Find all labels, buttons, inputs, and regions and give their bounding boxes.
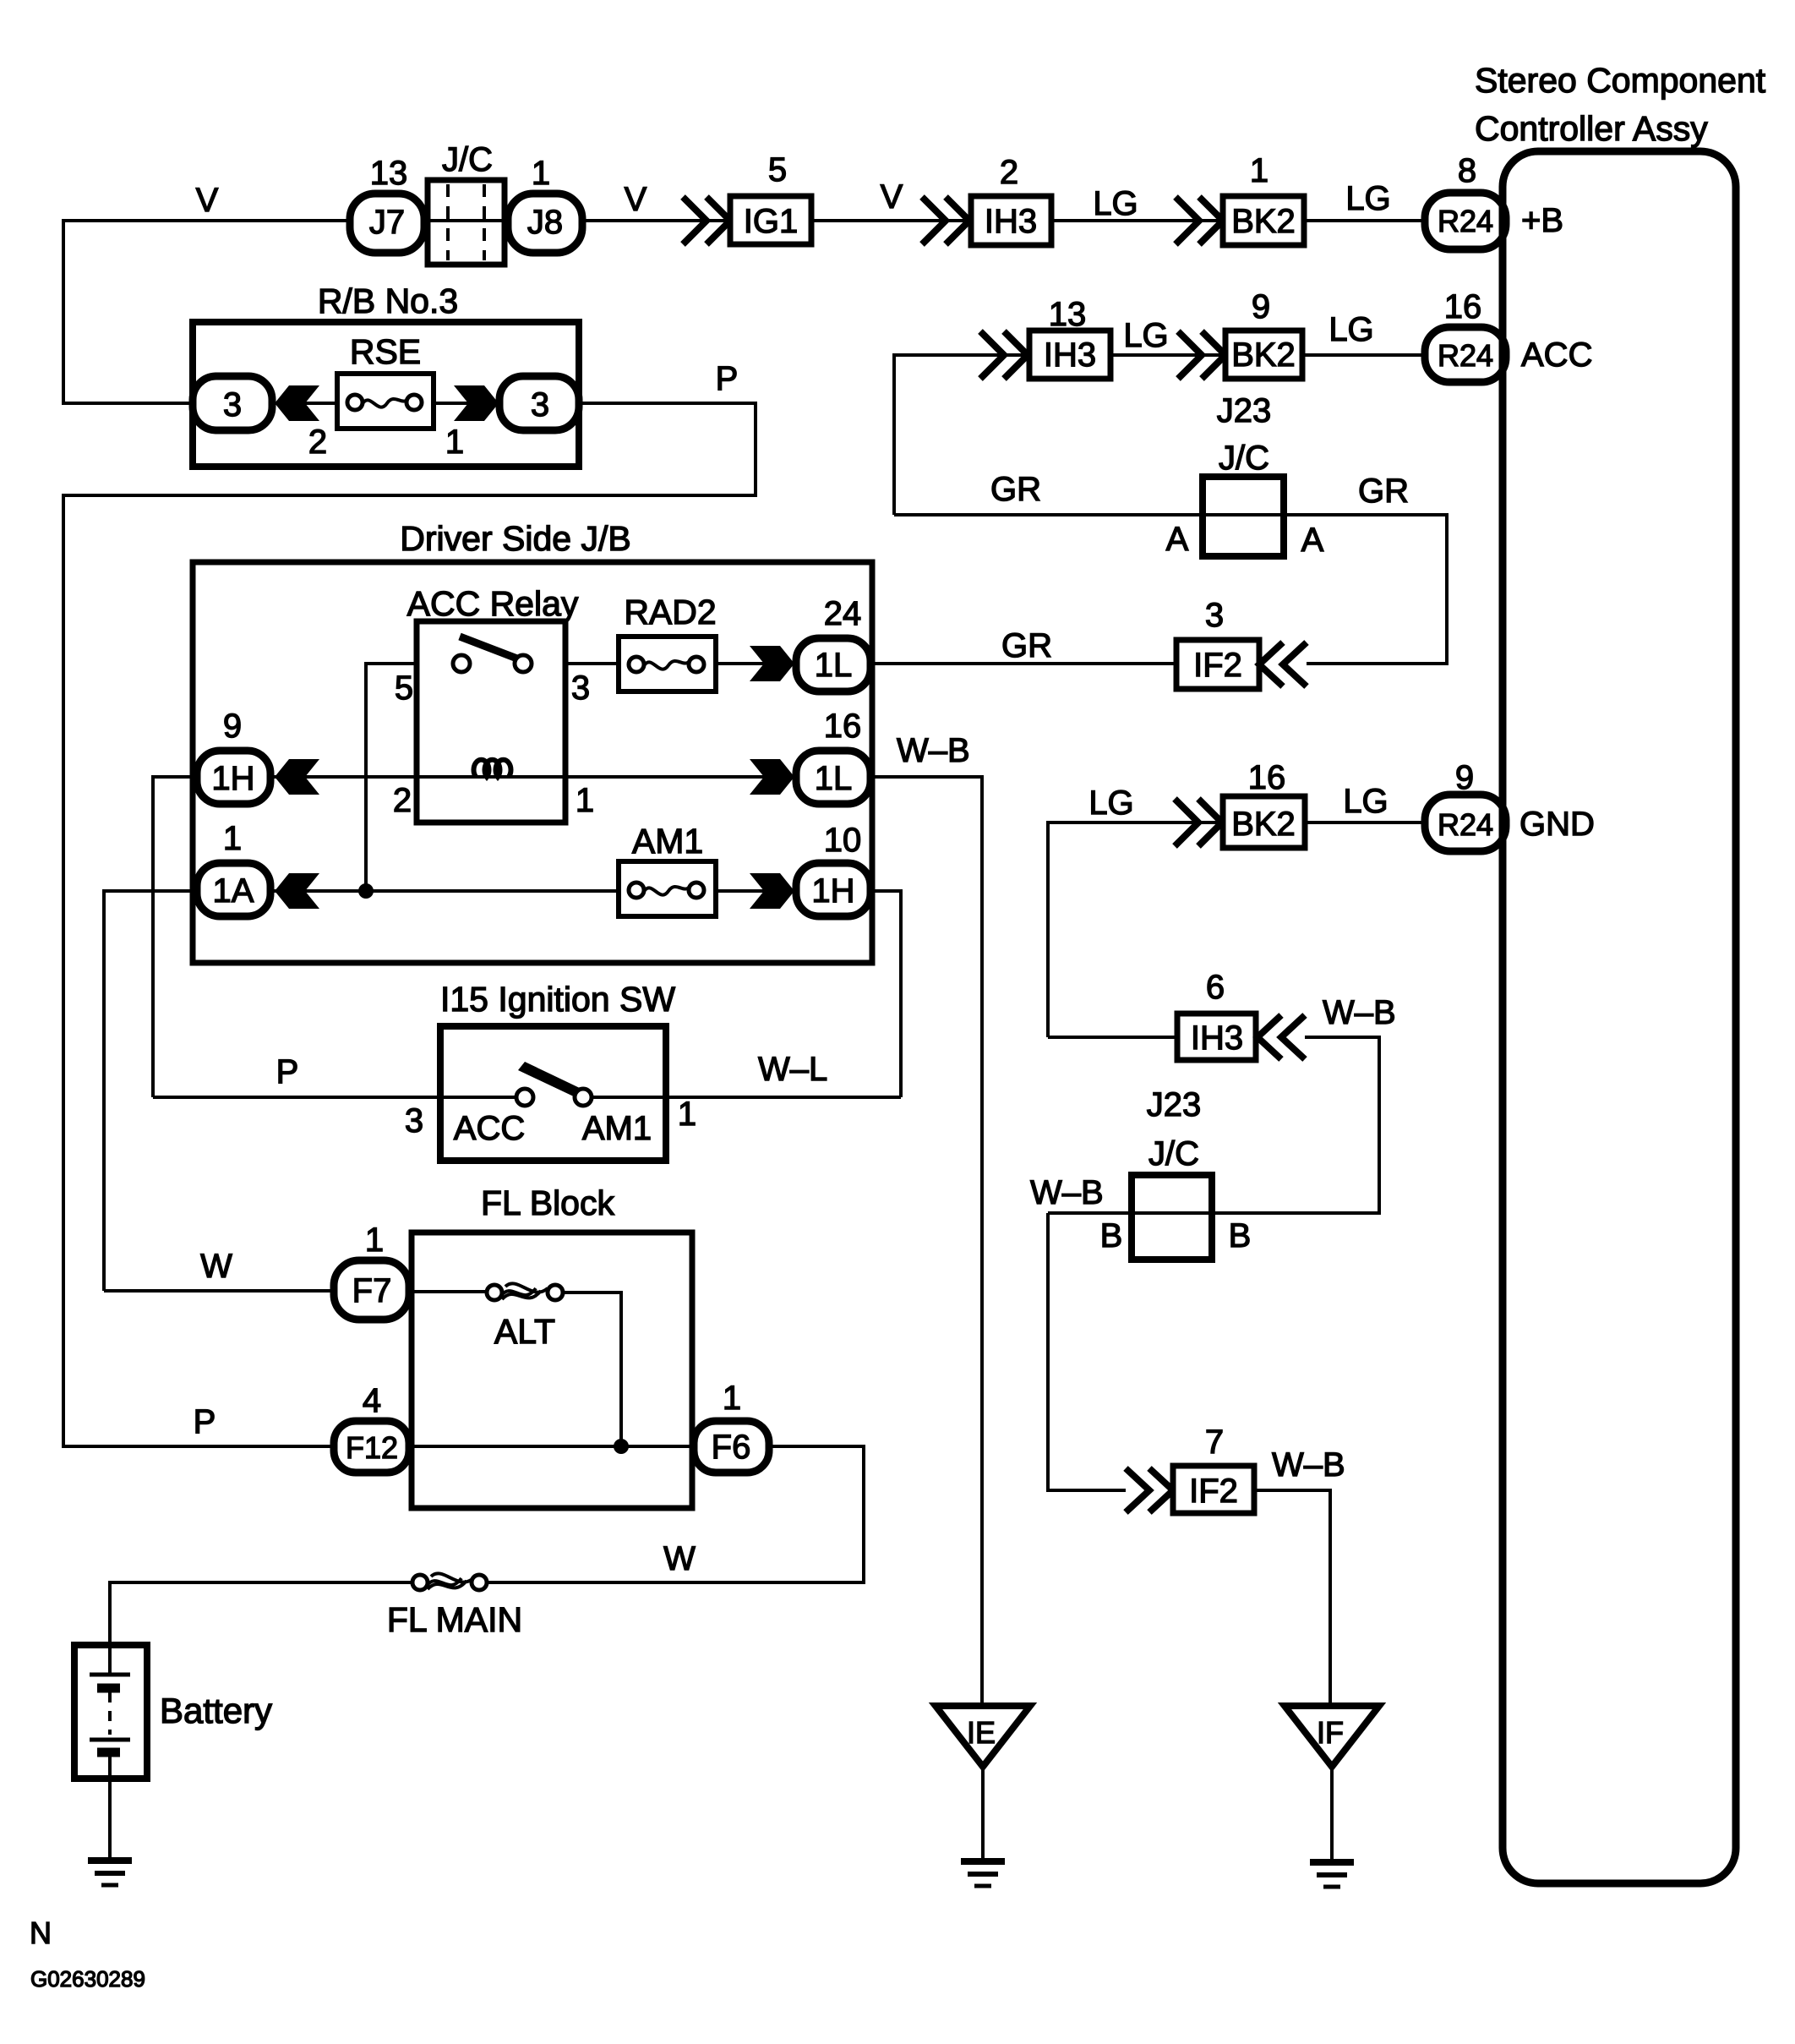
connector 1L (16): [796, 751, 870, 804]
connector 3 (right): [499, 376, 579, 430]
svg-text:5: 5: [395, 669, 413, 707]
svg-text:BK2: BK2: [1231, 806, 1296, 843]
contact AM1: [575, 1089, 592, 1106]
ground point IF: [1285, 1706, 1379, 1767]
svg-text:3: 3: [223, 386, 242, 424]
wire V : battery feed to J7: [63, 221, 350, 403]
junction connector J/C (A-A): [1203, 477, 1284, 556]
connector IH3 (6): [1177, 1014, 1256, 1060]
svg-text:1H: 1H: [211, 760, 254, 797]
svg-text:IG1: IG1: [744, 203, 798, 240]
svg-text:LG: LG: [1093, 185, 1138, 222]
wire IH3(6) row: [1048, 1036, 1177, 1039]
svg-text:1: 1: [365, 1221, 384, 1259]
connector 1L (24): [796, 638, 870, 691]
svg-text:IH3: IH3: [985, 203, 1037, 240]
svg-text:B: B: [1229, 1217, 1252, 1254]
svg-text:3: 3: [1205, 597, 1224, 634]
svg-text:P: P: [276, 1053, 299, 1090]
wire LG : IH3 to BK2: [1110, 353, 1225, 357]
svg-text:W: W: [200, 1248, 232, 1285]
relay block R/B No.3: [193, 322, 579, 467]
svg-text:IE: IE: [967, 1715, 996, 1750]
svg-text:G02630289: G02630289: [30, 1966, 145, 1992]
svg-text:1: 1: [223, 820, 242, 857]
wire F7 to ALT: [409, 1290, 494, 1293]
connector F7: [334, 1260, 409, 1320]
relay contact blade: [460, 637, 521, 660]
svg-text:J23: J23: [1217, 392, 1272, 429]
svg-text:9: 9: [223, 708, 242, 745]
svg-text:LG: LG: [1343, 783, 1388, 820]
arrow into IH3 (13): [980, 331, 1004, 379]
connector IF2 (3): [1176, 640, 1259, 689]
svg-text:V: V: [881, 178, 903, 216]
svg-text:J23: J23: [1147, 1086, 1202, 1123]
svg-text:LG: LG: [1123, 317, 1168, 354]
connector IH3 (13): [1029, 331, 1110, 379]
svg-text:Driver Side J/B: Driver Side J/B: [400, 519, 630, 558]
wire FL MAIN to battery: [110, 1582, 412, 1645]
wire LG : BK2 to R24: [1302, 353, 1425, 357]
svg-text:+B: +B: [1521, 202, 1563, 239]
svg-text:R24: R24: [1438, 807, 1493, 842]
svg-text:16: 16: [1248, 759, 1286, 796]
wire LG : BK2 to R24 GND: [1305, 821, 1425, 824]
connector BK2 (16): [1223, 796, 1305, 848]
svg-text:V: V: [196, 182, 219, 219]
junction dot: [614, 1439, 629, 1454]
black arrow into 1H(10): [750, 873, 794, 909]
svg-text:3: 3: [571, 669, 590, 707]
svg-text:J/C: J/C: [1148, 1135, 1199, 1172]
battery Battery: [74, 1645, 147, 1779]
svg-text:Battery: Battery: [160, 1691, 272, 1730]
svg-text:16: 16: [1444, 288, 1482, 325]
wire IE to ground: [981, 1767, 985, 1860]
junction block Driver Side J/B: [193, 562, 872, 963]
svg-text:1: 1: [1250, 152, 1269, 189]
svg-text:F6: F6: [712, 1429, 751, 1466]
arrow into BK2: [1176, 197, 1199, 244]
svg-text:13: 13: [1049, 296, 1087, 333]
switch I15 Ignition SW: [440, 1026, 666, 1161]
connector F6: [694, 1421, 769, 1473]
wire AM1 to 1H(10): [716, 889, 796, 893]
svg-text:W–B: W–B: [897, 732, 970, 769]
connector J7: [350, 194, 424, 253]
black arrow left (pin 2 side): [275, 385, 319, 421]
connector IG1: [730, 196, 811, 244]
svg-text:RSE: RSE: [350, 332, 421, 371]
relay ACC Relay: [417, 621, 565, 823]
svg-text:ALT: ALT: [494, 1312, 555, 1351]
svg-text:J/C: J/C: [1219, 440, 1269, 477]
connector F12: [334, 1421, 409, 1473]
connector R24 (+B): [1425, 193, 1506, 249]
svg-text:LG: LG: [1329, 311, 1373, 348]
wire 1H(10) to W-L riser: [870, 891, 901, 1097]
svg-text:2: 2: [393, 782, 412, 819]
connector 1H (9): [197, 751, 270, 804]
wire W-B : IH3 to J/C B: [1048, 1037, 1379, 1213]
svg-text:P: P: [716, 360, 739, 397]
svg-text:1H: 1H: [811, 872, 854, 910]
connector BK2 (9): [1225, 331, 1302, 379]
svg-text:AM1: AM1: [632, 822, 703, 861]
svg-text:ACC: ACC: [1521, 336, 1592, 374]
wire 1A to F7 riser: [104, 891, 197, 1291]
connector 3 (left): [193, 376, 272, 430]
svg-text:R24: R24: [1438, 338, 1493, 373]
svg-text:3: 3: [531, 386, 549, 424]
wire W : 1A riser to F7: [104, 1289, 334, 1293]
wire W-B : J/C B to IF2 (7): [1048, 1213, 1126, 1490]
svg-text:10: 10: [824, 822, 862, 859]
wire ACC row from riser: [894, 355, 1029, 515]
svg-text:2: 2: [1000, 154, 1018, 191]
svg-text:GND: GND: [1519, 806, 1595, 843]
svg-text:16: 16: [824, 708, 862, 745]
wire 1H to relay coil: [270, 775, 417, 779]
switch blade: [518, 1062, 583, 1099]
svg-text:P: P: [194, 1403, 216, 1440]
arrow into BK2 (9): [1178, 331, 1202, 379]
svg-text:I15 Ignition SW: I15 Ignition SW: [440, 980, 675, 1019]
wire RAD2 to 1L: [716, 662, 796, 665]
svg-text:1L: 1L: [815, 647, 853, 684]
wire V : IG1 to IH3: [811, 219, 971, 222]
svg-text:1: 1: [723, 1380, 741, 1417]
wire GR : 1L to IF2: [870, 662, 1176, 665]
svg-text:J7: J7: [369, 204, 405, 241]
ECU Stereo Component Controller Assy: [1503, 151, 1736, 1883]
wire 1A row to AM1: [270, 889, 619, 893]
svg-text:A: A: [1301, 522, 1324, 559]
wire relay pin3 to RAD2: [565, 662, 619, 665]
junction connector J/C (J7/J8): [428, 180, 505, 265]
wire LG : GND row to BK2: [1048, 823, 1223, 1037]
arrow into IG1: [683, 197, 707, 244]
svg-text:W–B: W–B: [1030, 1174, 1104, 1211]
arrow into IF2 (7): [1126, 1468, 1149, 1512]
svg-text:F7: F7: [352, 1272, 392, 1309]
svg-text:AM1: AM1: [582, 1110, 652, 1147]
wire W-L : AM1 contact to riser: [592, 1096, 901, 1099]
svg-text:W–B: W–B: [1323, 994, 1396, 1031]
svg-text:RAD2: RAD2: [624, 593, 716, 631]
svg-text:1: 1: [445, 424, 464, 461]
black arrow out of 1H: [275, 759, 319, 795]
svg-text:9: 9: [1455, 759, 1474, 796]
wire IF to ground: [1330, 1767, 1334, 1861]
wire LG : BK2 to R24: [1304, 219, 1425, 222]
svg-text:4: 4: [363, 1382, 381, 1419]
svg-text:GR: GR: [1001, 627, 1052, 664]
arrow into BK2 (16): [1175, 799, 1198, 846]
svg-text:BK2: BK2: [1231, 336, 1296, 374]
junction dot: [358, 883, 374, 899]
ground (battery): [88, 1857, 132, 1864]
arrow into IH3: [922, 197, 946, 244]
svg-text:J8: J8: [527, 204, 563, 241]
svg-text:8: 8: [1458, 152, 1476, 189]
svg-text:9: 9: [1252, 288, 1270, 325]
wire P : to F12 row through F6: [409, 1445, 694, 1448]
wire 1H(9) to ignition P riser: [153, 777, 197, 1097]
svg-text:2: 2: [308, 424, 327, 461]
wire LG : IH3 to BK2: [1051, 219, 1223, 222]
wire ALT to F12/F6 row: [563, 1293, 621, 1446]
battery plates: [108, 1645, 112, 1675]
svg-text:N: N: [30, 1916, 52, 1950]
fusible link block FL Block: [412, 1232, 692, 1508]
svg-text:IF2: IF2: [1189, 1473, 1238, 1510]
contact ACC: [516, 1089, 533, 1106]
svg-text:1A: 1A: [213, 872, 254, 910]
wire through J/C: [424, 219, 508, 222]
fusible link ALT: [487, 1285, 502, 1300]
svg-text:1: 1: [576, 782, 594, 819]
wire battery to ground: [108, 1779, 112, 1860]
connector IF2 (7): [1173, 1466, 1254, 1513]
svg-text:W: W: [663, 1540, 696, 1577]
svg-text:W–B: W–B: [1272, 1446, 1345, 1484]
wire F6 down to FL MAIN row: [488, 1446, 864, 1582]
junction connector J/C (B-B): [1132, 1175, 1212, 1260]
connector R24 (ACC): [1425, 327, 1506, 382]
ground (IE): [961, 1858, 1005, 1865]
svg-text:W–L: W–L: [758, 1051, 827, 1088]
svg-text:1L: 1L: [815, 760, 853, 797]
svg-text:V: V: [625, 181, 647, 218]
wire V : J8 to IG1: [582, 219, 730, 222]
svg-text:ACC: ACC: [454, 1110, 525, 1147]
svg-text:FL MAIN: FL MAIN: [387, 1600, 522, 1639]
black arrow into 1L(16): [750, 759, 794, 795]
svg-text:LG: LG: [1088, 784, 1133, 822]
svg-text:5: 5: [768, 151, 787, 189]
svg-text:1: 1: [532, 155, 550, 192]
connector 1H (10): [796, 863, 870, 916]
black arrow right (pin 1 side): [454, 385, 499, 421]
relay coil row wire: [417, 775, 796, 779]
svg-text:J/C: J/C: [442, 141, 493, 178]
svg-text:24: 24: [824, 595, 862, 632]
svg-text:BK2: BK2: [1231, 203, 1296, 240]
arrow into IF2 (3): [1259, 642, 1283, 686]
svg-text:A: A: [1166, 521, 1189, 558]
wire to RSE: [272, 402, 337, 405]
ground point IE: [936, 1706, 1030, 1767]
connector J8: [508, 194, 582, 253]
svg-text:Controller Assy: Controller Assy: [1475, 109, 1708, 148]
svg-text:GR: GR: [990, 471, 1041, 508]
arrow into IH3 (6): [1258, 1015, 1281, 1059]
wire GR through J/C down to IF2: [894, 515, 1447, 664]
connector R24 (GND): [1425, 795, 1506, 851]
svg-text:13: 13: [370, 155, 408, 192]
connector 1A: [197, 863, 270, 916]
svg-text:LG: LG: [1345, 180, 1390, 217]
fusible link FL MAIN: [412, 1575, 428, 1590]
svg-text:3: 3: [405, 1102, 423, 1140]
wire W-B : 1L to IE riser: [870, 777, 982, 1706]
wire P : from 1H riser to ACC contact: [153, 1096, 516, 1099]
svg-text:F12: F12: [346, 1430, 398, 1465]
black arrow into 1L(24): [750, 646, 794, 681]
svg-text:7: 7: [1205, 1424, 1224, 1461]
black arrow out of 1A: [275, 873, 319, 909]
svg-text:FL Block: FL Block: [481, 1183, 614, 1222]
svg-text:B: B: [1100, 1217, 1123, 1254]
svg-text:IH3: IH3: [1044, 336, 1096, 374]
relay coil: [474, 760, 511, 777]
wire P : RSE to FL block F12: [63, 403, 756, 1446]
svg-text:R/B No.3: R/B No.3: [318, 281, 458, 320]
connector BK2 (top): [1223, 196, 1304, 245]
svg-text:GR: GR: [1358, 473, 1409, 510]
wire relay pin5 riser to 1A row: [366, 664, 417, 891]
svg-text:IF2: IF2: [1193, 647, 1242, 684]
svg-text:Stereo Component: Stereo Component: [1475, 61, 1766, 100]
connector IH3 (top): [971, 196, 1051, 245]
svg-text:6: 6: [1206, 969, 1225, 1006]
svg-text:R24: R24: [1438, 204, 1493, 238]
svg-text:IH3: IH3: [1191, 1019, 1243, 1057]
svg-text:IF: IF: [1317, 1715, 1344, 1750]
ground (IF): [1310, 1859, 1354, 1866]
svg-text:ACC Relay: ACC Relay: [407, 584, 579, 623]
wire W-B : IF2 to IF ground riser: [1254, 1490, 1330, 1706]
svg-text:1: 1: [678, 1096, 696, 1133]
